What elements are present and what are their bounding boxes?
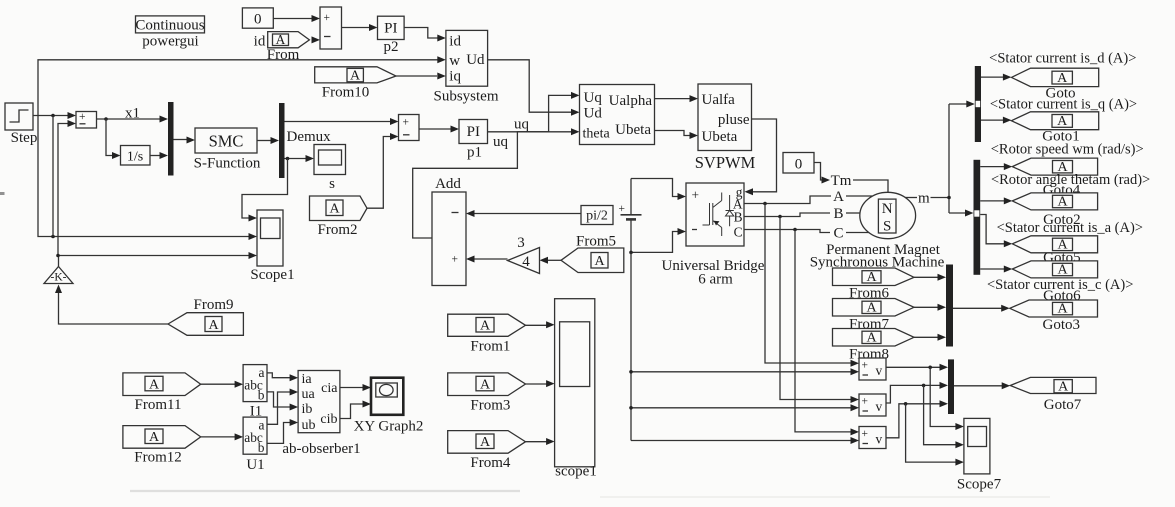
from tag From6 <box>833 268 915 286</box>
svg-text:From4: From4 <box>470 455 511 471</box>
scope scope1 <box>555 299 595 467</box>
wire From6 to Mux3 <box>914 274 946 281</box>
wire p1 uq to dq2ab Uq <box>488 92 580 132</box>
from tag From10 <box>315 67 396 84</box>
svg-text:6 arm: 6 arm <box>698 272 733 288</box>
converter I1 <box>243 365 267 403</box>
svg-text:x1: x1 <box>125 106 140 122</box>
svg-text:From5: From5 <box>576 234 616 250</box>
sum Sum1 <box>76 111 97 128</box>
wire V3 to Mux2 and Scope7 in3 <box>886 400 964 465</box>
svg-text:From3: From3 <box>470 398 510 414</box>
sum Sum3 <box>399 115 420 141</box>
svg-text:p2: p2 <box>384 39 399 55</box>
svg-text:Scope1: Scope1 <box>250 267 294 283</box>
from tag From3 <box>448 373 526 396</box>
wire From2 to Sum3 minus <box>367 133 399 208</box>
svg-text:From: From <box>267 47 300 63</box>
goto tag Goto2 <box>1012 193 1097 210</box>
wire w line to Subsystem and Scope1 in2 <box>38 56 446 240</box>
svg-text:3: 3 <box>517 235 525 251</box>
goto tag Goto4 <box>1012 158 1097 175</box>
svg-text:Demux: Demux <box>287 129 332 145</box>
svg-text:ua: ua <box>302 387 316 402</box>
svg-text:A: A <box>866 270 877 285</box>
scope Scope7 <box>964 418 990 474</box>
wire pi/2 to Add minus <box>466 210 581 217</box>
from tag From4 <box>448 431 526 454</box>
goto tag Goto1 <box>1011 112 1098 130</box>
svg-text:A: A <box>1057 195 1068 210</box>
svg-text:<Stator current is_d (A)>: <Stator current is_d (A)> <box>989 51 1136 67</box>
mux Mux2 <box>948 359 954 414</box>
from tag From2 <box>310 196 368 221</box>
svg-text:From12: From12 <box>134 450 182 466</box>
wire bus2 out4 to Goto6 <box>980 266 1012 273</box>
scope s <box>314 145 346 175</box>
svg-text:A: A <box>276 32 286 47</box>
svg-text:Ubeta: Ubeta <box>615 122 651 138</box>
wire From7 to Mux3 <box>914 304 946 311</box>
svg-text:A: A <box>480 377 491 392</box>
step source Step <box>5 103 33 130</box>
voltage measurement V1 <box>859 358 886 380</box>
observer ab-obserber1 <box>298 371 340 434</box>
svg-text:A: A <box>866 300 877 315</box>
svg-text:A: A <box>149 377 160 392</box>
universal bridge U-Bridge <box>686 183 744 246</box>
svg-text:id: id <box>449 34 461 50</box>
wire bridge B to machine <box>744 213 861 218</box>
svg-text:scope1: scope1 <box>555 464 597 480</box>
svg-text:Tm: Tm <box>831 173 852 189</box>
wire Sum3 to p1 <box>419 126 459 133</box>
svg-text:XY Graph2: XY Graph2 <box>354 419 424 435</box>
wire U1 a to observer ua <box>267 389 298 425</box>
svg-text:ab-obserber1: ab-obserber1 <box>282 441 360 457</box>
wire dc to V3 minus <box>631 437 859 444</box>
wire dc to V2 minus <box>629 404 859 411</box>
wire Ualpha to SVPWM <box>655 95 699 102</box>
wire From10 to Subsystem iq <box>396 73 446 80</box>
svg-text:Ualpha: Ualpha <box>609 93 653 109</box>
svg-text:v: v <box>876 432 883 447</box>
svg-text:Goto7: Goto7 <box>1044 397 1082 413</box>
dc voltage source <box>619 179 642 253</box>
svg-text:From1: From1 <box>470 339 510 355</box>
from tag From7 <box>833 299 915 317</box>
svg-text:v: v <box>876 399 883 414</box>
svg-text:<Stator current is_a (A)>: <Stator current is_a (A)> <box>997 220 1143 236</box>
wire From3 to scope1 <box>526 380 555 387</box>
svg-text:PI: PI <box>384 21 397 37</box>
wire cia to XY Graph2 <box>340 384 371 391</box>
from tag From8 <box>833 329 915 347</box>
svg-text:Goto3: Goto3 <box>1043 317 1081 333</box>
wire SMC to Demux <box>257 137 279 144</box>
wire bus1 out1 to Goto <box>981 74 1011 81</box>
wire Sum2 to p2 <box>342 24 378 31</box>
svg-text:A: A <box>833 189 844 205</box>
wire bus2 out1 to Goto4 <box>980 163 1012 170</box>
wire SVPWM pluse to bridge g <box>745 119 777 195</box>
voltage measurement V2 <box>859 394 886 416</box>
wire 0 to Tm <box>814 163 830 184</box>
svg-text:s: s <box>329 176 335 192</box>
svg-text:C: C <box>734 225 743 240</box>
wire I1 a to observer ia <box>267 373 298 381</box>
svg-text:b: b <box>258 440 265 455</box>
wire Step branch down <box>52 116 54 237</box>
svg-text:From10: From10 <box>322 85 370 101</box>
svg-text:ia: ia <box>302 372 313 387</box>
svg-text:Ud: Ud <box>584 106 603 122</box>
svg-text:pluse: pluse <box>718 112 750 128</box>
svg-text:cia: cia <box>321 381 338 396</box>
gain 4 <box>508 248 540 274</box>
wire dc to V1 minus <box>629 368 859 375</box>
voltage measurement V3 <box>859 427 886 449</box>
svg-text:Scope7: Scope7 <box>957 477 1002 493</box>
svg-text:A: A <box>1057 302 1068 317</box>
svg-text:1/s: 1/s <box>127 150 143 165</box>
wire From5 to gain <box>540 257 562 264</box>
svg-text:+: + <box>862 428 869 440</box>
svg-text:A: A <box>866 330 877 345</box>
svg-text:v: v <box>876 363 883 378</box>
wire Tm to machine <box>853 180 888 192</box>
bus selector 2 <box>974 160 981 275</box>
wire Subsystem Ud to dq2ab Ud <box>488 60 580 116</box>
subsystem SVPWM <box>698 84 752 151</box>
wire bridge A to machine <box>744 196 872 205</box>
svg-text:m: m <box>918 191 930 207</box>
svg-text:PI: PI <box>467 124 480 140</box>
svg-text:From2: From2 <box>317 222 357 238</box>
scan artifact bottom <box>130 491 1050 497</box>
svg-text:C: C <box>833 226 843 242</box>
from tag From <box>268 32 310 48</box>
goto tag Goto6 <box>1012 261 1097 278</box>
svg-text:B: B <box>833 206 843 222</box>
wire dc bus down <box>630 252 632 440</box>
wire Ubeta to SVPWM <box>655 131 699 140</box>
svg-text:From9: From9 <box>193 297 233 313</box>
wire From8 to Mux3 <box>914 334 946 341</box>
svg-text:SVPWM: SVPWM <box>695 153 756 172</box>
svg-text:SMC: SMC <box>209 132 244 151</box>
wire 1/s to Mux1 <box>150 152 168 159</box>
svg-text:b: b <box>258 388 265 403</box>
scan artifact left edge <box>0 192 5 195</box>
svg-text:A: A <box>208 318 219 333</box>
wire branch to Scope1 in1 <box>242 159 288 222</box>
wire bridge A branch to V1 plus <box>765 204 859 367</box>
svg-text:B: B <box>734 210 743 225</box>
bus selector 1 <box>975 66 981 142</box>
wire V2 to Mux2 and Scope7 in2 <box>886 382 964 448</box>
wire Sum1 feedback input <box>58 120 76 256</box>
wire From12 to U1 <box>201 433 243 440</box>
wire Mux3 to Goto3 <box>953 305 1010 312</box>
svg-text:A: A <box>350 69 361 84</box>
wire feedback to Scope1 in3 <box>56 252 257 267</box>
wire From9 to -K- <box>55 285 168 325</box>
svg-text:ub: ub <box>302 418 316 433</box>
svg-text:From11: From11 <box>135 397 182 413</box>
svg-text:A: A <box>149 430 160 445</box>
PI controller p1 <box>459 120 488 144</box>
svg-text:+: + <box>403 117 410 129</box>
wire Step to Sum1 <box>33 112 76 119</box>
sum Sum2 <box>320 7 342 49</box>
PI controller p2 <box>378 16 405 39</box>
svg-text:S: S <box>883 219 891 235</box>
mux Mux3 <box>946 265 953 347</box>
wire bridge C to machine <box>744 228 869 233</box>
constant 0 (id ref) <box>242 8 273 28</box>
svg-text:pi/2: pi/2 <box>586 209 608 224</box>
goto tag Goto3 <box>1010 300 1098 317</box>
wire From11 to I1 <box>201 381 243 388</box>
wire Mux2 to Goto7 <box>954 382 1010 389</box>
wire Demux out1 to Sum3 <box>285 118 399 125</box>
converter U1 <box>243 417 267 455</box>
from tag From5 <box>561 248 624 273</box>
scope Scope1 <box>257 210 283 266</box>
svg-text:+: + <box>452 254 459 266</box>
from tag From1 <box>448 314 526 336</box>
mux Mux1 <box>168 102 174 176</box>
svg-text:A: A <box>329 202 340 217</box>
subsystem dq2alphabeta <box>580 85 655 145</box>
svg-text:A: A <box>1057 114 1068 129</box>
subsystem Subsystem <box>446 30 488 86</box>
svg-text:Add: Add <box>435 176 461 192</box>
svg-text:U1: U1 <box>246 457 264 473</box>
svg-text:Ualfa: Ualfa <box>702 92 736 108</box>
wire m to bus selectors <box>905 101 975 217</box>
svg-text:+: + <box>862 396 869 408</box>
wire gain to Add plus <box>466 256 508 263</box>
wire Sum1 output to Mux1 <box>97 116 169 123</box>
wire I1 b to observer ib <box>267 392 298 411</box>
svg-text:ib: ib <box>302 402 313 417</box>
constant pi/2 <box>581 206 613 225</box>
wire Demux out2 to scope s <box>285 155 315 162</box>
goto tag Goto <box>1011 68 1098 86</box>
wire bus2 out3 to Goto5 <box>980 215 1012 248</box>
wire bus2 out2 to Goto2 <box>980 197 1012 204</box>
svg-text:<Stator current is_q (A)>: <Stator current is_q (A)> <box>990 96 1137 112</box>
svg-text:-K-: -K- <box>51 272 67 284</box>
svg-text:Ud: Ud <box>466 52 485 68</box>
svg-text:A: A <box>1057 71 1068 86</box>
wire Add theta to dq2ab theta <box>413 128 580 238</box>
wire 0 to Sum2 <box>273 15 320 22</box>
svg-text:S-Function: S-Function <box>194 156 261 172</box>
svg-text:+: + <box>324 12 331 24</box>
scope XY Graph2 <box>371 378 403 415</box>
svg-text:theta: theta <box>583 127 611 142</box>
svg-text:<Rotor speed wm (rad/s)>: <Rotor speed wm (rad/s)> <box>991 142 1144 158</box>
constant 0 Tm <box>783 153 814 174</box>
goto tag Goto7 <box>1010 377 1096 394</box>
wire bus1 out2 to Goto1 <box>981 117 1011 124</box>
wire p2 to Subsystem id <box>404 28 446 42</box>
goto tag Goto5 <box>1012 236 1097 253</box>
svg-text:0: 0 <box>795 157 803 173</box>
svg-text:A: A <box>1057 263 1068 278</box>
svg-text:Continuous: Continuous <box>135 17 204 33</box>
svg-text:powergui: powergui <box>142 34 198 50</box>
svg-text:w: w <box>449 53 460 69</box>
wire From1 to scope1 <box>526 321 555 328</box>
wire cib to XY Graph2 <box>340 401 371 419</box>
svg-text:+: + <box>79 111 86 123</box>
from tag From9 <box>168 313 243 336</box>
wire U1 b to observer ub <box>267 419 298 443</box>
powergui block <box>135 16 204 33</box>
svg-text:A: A <box>480 435 491 450</box>
svg-text:+: + <box>862 360 869 372</box>
svg-text:uq: uq <box>514 117 530 133</box>
S-Function SMC <box>195 128 257 153</box>
gain -K- <box>44 267 73 284</box>
svg-text:4: 4 <box>522 254 530 270</box>
svg-text:+: + <box>619 203 626 215</box>
svg-text:A: A <box>480 319 491 334</box>
wire branch to integrator <box>106 119 121 159</box>
from tag From12 <box>123 426 201 449</box>
svg-text:iq: iq <box>449 69 461 85</box>
svg-text:A: A <box>1058 379 1069 394</box>
wire bridge C branch to V3 plus <box>795 230 859 436</box>
wire dc minus to bridge <box>629 228 686 254</box>
svg-text:Step: Step <box>11 130 38 146</box>
svg-text:A: A <box>594 254 605 269</box>
wire bridge B branch to V2 plus <box>780 217 859 404</box>
svg-text:id: id <box>254 34 266 50</box>
machine PMSM <box>860 192 916 238</box>
svg-text:Uq: Uq <box>584 90 603 106</box>
from tag From11 <box>123 373 201 396</box>
wire dc plus to bridge <box>631 179 686 201</box>
integrator 1/s <box>121 146 151 166</box>
svg-text:Ubeta: Ubeta <box>702 129 738 145</box>
svg-text:p1: p1 <box>467 145 482 161</box>
svg-text:0: 0 <box>254 12 262 28</box>
wire From to Sum2 <box>312 36 321 43</box>
wire V1 to Mux2 and Scope7 in1 <box>886 364 964 430</box>
svg-text:uq: uq <box>493 134 509 150</box>
demux Demux <box>279 103 285 178</box>
wire From4 to scope1 <box>526 438 555 445</box>
svg-text:Subsystem: Subsystem <box>433 89 498 105</box>
svg-text:N: N <box>882 201 893 217</box>
sum Add <box>432 192 466 286</box>
wire Mux1 to SMC <box>174 137 196 144</box>
svg-text:+: + <box>692 188 700 203</box>
svg-text:cib: cib <box>320 412 337 427</box>
